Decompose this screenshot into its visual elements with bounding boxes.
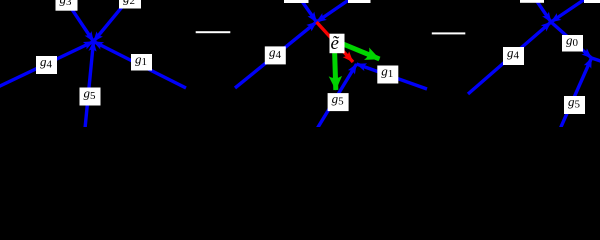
edge g1 stub (fig3, cut at right): [592, 58, 600, 62]
edge g4 (fig3): [468, 22, 551, 94]
edge g2 (fig3): [551, 0, 588, 22]
green arrow along g5 (fig2): [335, 48, 336, 90]
label box g5 (fig3): [564, 96, 585, 114]
edge g2 (fig1): [94, 0, 132, 42]
label box g3 (fig1): [56, 0, 78, 11]
label box g1 (fig2): [377, 66, 398, 84]
label box e~ (fig2): [330, 34, 345, 54]
edge g2 (fig2): [317, 0, 354, 22]
label box g4 (fig1): [36, 56, 57, 74]
green arrow along g1 (fig2): [338, 42, 380, 59]
red edge e~ (fig2): [317, 22, 354, 62]
edge g3 (fig2): [299, 0, 317, 22]
label box g2 (fig1): [119, 0, 141, 9]
edge g5 (fig2): [318, 64, 357, 128]
edge g1 (fig1): [94, 42, 187, 89]
edge g3 (fig3): [534, 0, 551, 22]
label box sliver g2 (fig2, cut at top): [348, 0, 371, 3]
label box sliver g2 (fig3, cut at top): [584, 0, 600, 3]
edge g5 (fig3): [561, 58, 592, 128]
separator dash 2: [432, 32, 466, 34]
label box g4 (fig3): [503, 47, 524, 65]
label box g1 (fig1): [131, 54, 152, 71]
edge g5 (fig1): [85, 42, 94, 129]
label box g5 (fig1): [80, 88, 101, 106]
edge g0 (fig3): [551, 22, 592, 58]
label box g5 (fig2): [328, 93, 349, 111]
edge g1 (fig2): [357, 64, 428, 89]
label box g4 (fig2): [265, 46, 286, 64]
edge g4 (fig2): [235, 22, 317, 88]
separator dash 1: [196, 31, 231, 33]
label box sliver g3 (fig3, cut at top): [520, 0, 544, 3]
edge g3 (fig1): [63, 0, 94, 42]
label box g0 (fig3): [562, 35, 583, 52]
edge g4 (fig1): [0, 42, 94, 88]
label box sliver g3 (fig2, cut at top): [284, 0, 309, 3]
svg-text:ẽ: ẽ: [331, 33, 340, 54]
